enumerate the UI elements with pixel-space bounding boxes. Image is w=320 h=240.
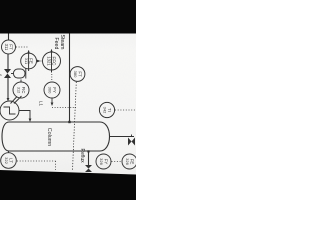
valve actuator dome: [11, 73, 14, 75]
top black band: [0, 0, 136, 34]
instrument LT 380 on feed pipe: [70, 67, 85, 82]
svg-text:312: 312: [17, 87, 21, 93]
svg-text:326: 326: [125, 158, 130, 165]
instrument FY 300: [44, 82, 60, 98]
instrument FT 311: [2, 40, 16, 54]
wire: dotted LT path right then down: [17, 160, 56, 162]
wire: pipe valve to reboiler with arrow: [7, 78, 9, 98]
reboiler exchanger E1: [0, 96, 22, 120]
instrument TI 342: [99, 102, 114, 117]
svg-text:311: 311: [4, 44, 9, 51]
wire: dotted with arrow into FFC: [37, 60, 41, 63]
paper background: [0, 0, 136, 200]
svg-text:342: 342: [103, 107, 108, 114]
valve V2 (bowtie vertical): [85, 165, 92, 172]
svg-text:1321: 1321: [47, 56, 52, 66]
svg-text:Feed: Feed: [53, 38, 59, 50]
label Steam Feed: [53, 35, 65, 50]
wire: pipe from bubble to valve: [7, 54, 9, 69]
wire: dotted signal FT to FE: [16, 46, 28, 48]
instrument FE 311 (inline, with pipe through): [21, 50, 37, 71]
svg-text:326: 326: [99, 158, 104, 165]
instrument FE 326 (cut at edge): [122, 154, 137, 169]
wire: dashed signal crossing column down to bottom band: [73, 82, 77, 170]
instrument FIC 312: [13, 82, 29, 98]
wire: dotted between FY and FE: [112, 161, 122, 163]
wire: dotted from TI to right edge: [115, 109, 136, 111]
control valve V1 (bowtie): [4, 69, 11, 78]
node: feed junction on vessel top: [68, 121, 70, 123]
wire: steam feed pipe (vertical main): [69, 33, 71, 122]
instrument FFC 1321 (with line through): [43, 49, 61, 73]
wire: line from top band to FT bubble: [8, 33, 10, 40]
wire: overhead line from right cap: [110, 136, 135, 138]
bottom black band: [0, 170, 136, 200]
svg-text:s: s: [0, 73, 2, 77]
instrument FY 326: [96, 154, 111, 169]
wire: reboiler outlet to vessel: [19, 111, 30, 119]
svg-text:Reflux: Reflux: [79, 149, 85, 164]
instrument LT 322: [1, 151, 17, 168]
wire: diagonal FIC to reboiler: [11, 97, 18, 104]
svg-text:Column: Column: [46, 128, 52, 147]
svg-text:300: 300: [48, 87, 53, 94]
svg-text:311: 311: [24, 58, 29, 65]
svg-text:L1: L1: [39, 101, 44, 106]
wire: dashed FFC to FY: [51, 74, 53, 81]
vessel: Column: [2, 122, 110, 151]
wire: stub FIC to actuator dome: [20, 80, 22, 83]
svg-text:380: 380: [73, 71, 78, 78]
svg-text:FIC: FIC: [21, 87, 26, 94]
svg-text:322: 322: [4, 157, 9, 164]
wire: dotted run to column signal line: [52, 107, 76, 109]
wire: bottoms pipe with valve: [88, 151, 90, 165]
valve V3 at edge: [128, 138, 135, 146]
wire: FY output stub with arrow: [51, 98, 53, 103]
node: bottoms junction on vessel: [87, 150, 89, 152]
